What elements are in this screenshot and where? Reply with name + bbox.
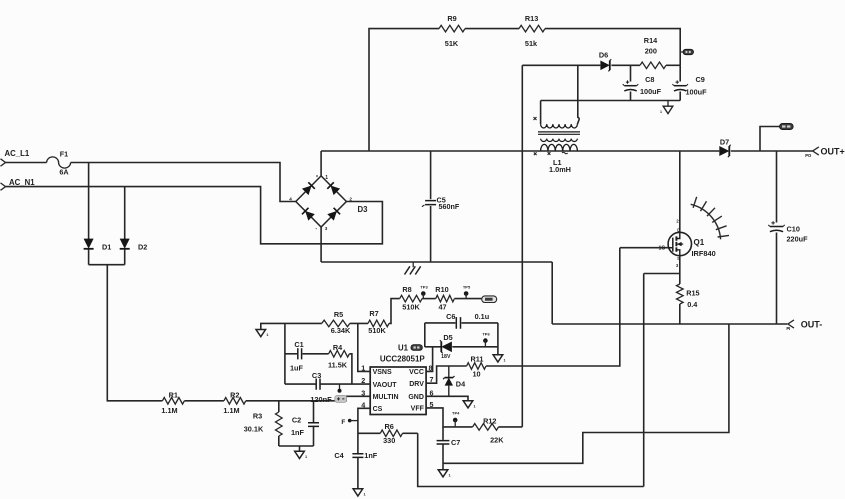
svg-text:R8: R8 — [402, 285, 411, 294]
capacitor C4 — [334, 451, 377, 460]
svg-text:200: 200 — [645, 47, 657, 56]
wire — [442, 427, 444, 440]
svg-text:1.1M: 1.1M — [223, 406, 239, 415]
net label — [482, 296, 497, 303]
wire — [358, 432, 380, 434]
wire — [630, 92, 632, 101]
svg-text:AC_L1: AC_L1 — [5, 149, 30, 158]
wire — [679, 256, 681, 284]
resistor R5 — [322, 310, 351, 335]
svg-text:220uF: 220uF — [787, 235, 809, 244]
resistor R14 — [640, 36, 666, 69]
resistor R9 — [439, 14, 465, 48]
svg-text:R6: R6 — [385, 422, 394, 431]
svg-text:VAOUT: VAOUT — [373, 382, 398, 389]
svg-text:R7: R7 — [369, 309, 378, 318]
svg-text:*: * — [316, 175, 318, 181]
wire — [313, 401, 315, 423]
wire — [278, 436, 280, 446]
wire — [124, 187, 126, 239]
test point TP5 — [463, 284, 471, 298]
svg-text:D7: D7 — [720, 137, 729, 146]
wire — [320, 383, 370, 385]
wire — [776, 151, 778, 223]
svg-text:R9: R9 — [447, 14, 456, 23]
wire — [497, 323, 499, 355]
capacitor C6 — [446, 312, 489, 329]
bridge rectifier D3 — [289, 175, 368, 232]
ground — [353, 489, 365, 497]
capacitor C9 — [672, 75, 707, 96]
svg-text:C7: C7 — [451, 438, 460, 447]
wire — [313, 427, 315, 446]
resistor R15 — [677, 284, 700, 309]
wire — [107, 265, 162, 401]
wire — [551, 262, 553, 324]
svg-text:120nF: 120nF — [310, 395, 332, 404]
resistor R2 — [223, 391, 245, 415]
resistor R8 — [400, 285, 422, 311]
resistor R3 — [244, 412, 282, 436]
svg-text:D6: D6 — [599, 50, 608, 59]
svg-text:C4: C4 — [334, 451, 344, 460]
svg-text:1.0mH: 1.0mH — [549, 165, 571, 174]
svg-text:R14: R14 — [644, 36, 658, 45]
svg-text:R10: R10 — [435, 285, 448, 294]
wire — [731, 150, 813, 152]
svg-text:3: 3 — [361, 388, 365, 397]
svg-text:U1: U1 — [398, 344, 409, 353]
wire — [541, 100, 681, 102]
wire — [403, 432, 418, 434]
svg-text:1.1M: 1.1M — [161, 406, 177, 415]
net flag F — [341, 419, 358, 426]
wire — [424, 323, 426, 347]
wire — [577, 65, 579, 124]
svg-text:R15: R15 — [686, 289, 699, 298]
svg-text:3: 3 — [676, 263, 679, 268]
heatsink of Q1 — [691, 197, 729, 240]
resistor R12 — [473, 417, 505, 445]
wire — [679, 92, 681, 101]
diode D4 — [443, 366, 466, 396]
capacitor C1 — [290, 340, 304, 372]
ground — [405, 262, 421, 275]
svg-text:C9: C9 — [696, 75, 705, 84]
wire — [545, 29, 680, 66]
wire — [442, 444, 444, 469]
wire — [302, 353, 328, 355]
ground — [493, 355, 505, 363]
capacitor C8 — [623, 75, 662, 96]
wire — [358, 323, 370, 371]
svg-text:PI: PI — [786, 326, 790, 331]
svg-text:C2: C2 — [292, 416, 301, 425]
resistor R1 — [161, 391, 184, 415]
svg-text:IRF840: IRF840 — [692, 249, 716, 258]
wire — [552, 323, 787, 325]
svg-text:51k: 51k — [525, 39, 538, 48]
svg-text:DRV: DRV — [409, 381, 424, 388]
wire — [320, 227, 322, 262]
op-amp U1 UCC28051P — [361, 344, 433, 415]
port OUT+ — [805, 146, 844, 157]
svg-text:2: 2 — [349, 196, 352, 201]
wire — [430, 151, 432, 199]
svg-text:TP6: TP6 — [482, 331, 490, 336]
node — [338, 384, 342, 393]
wire — [71, 163, 296, 202]
svg-text:R12: R12 — [483, 417, 496, 426]
svg-text:0.1u: 0.1u — [475, 312, 490, 321]
svg-text:D4: D4 — [456, 379, 466, 388]
svg-text:C6: C6 — [446, 312, 455, 321]
wire — [350, 322, 368, 324]
test point TP6 — [482, 331, 490, 347]
wire — [321, 261, 552, 263]
wire — [426, 347, 433, 372]
svg-text:Q1: Q1 — [694, 238, 705, 247]
svg-text:C3: C3 — [312, 371, 321, 380]
wire — [425, 346, 442, 348]
svg-text:1: 1 — [325, 175, 328, 181]
capacitor C10 — [768, 221, 808, 243]
port OUT- — [786, 319, 822, 330]
svg-text:R5: R5 — [334, 310, 343, 319]
wire — [465, 28, 519, 30]
resistor R11 — [467, 355, 486, 379]
capacitor C3 — [312, 371, 321, 390]
wire — [452, 346, 498, 348]
svg-text:D5: D5 — [443, 333, 452, 342]
svg-text:C10: C10 — [787, 224, 800, 233]
svg-text:TP4: TP4 — [452, 411, 460, 416]
wire — [426, 366, 467, 383]
wire — [679, 65, 681, 81]
ground — [295, 446, 307, 459]
wire — [443, 324, 729, 463]
svg-text:F: F — [341, 419, 345, 426]
wire — [6, 162, 47, 164]
svg-text:11.5K: 11.5K — [328, 361, 348, 370]
wire — [358, 408, 370, 453]
svg-text:6.34K: 6.34K — [331, 326, 351, 335]
svg-text:R13: R13 — [525, 14, 538, 23]
svg-text:-: - — [315, 226, 317, 232]
wire — [486, 248, 620, 366]
wire — [611, 64, 640, 66]
zener D5 — [440, 333, 453, 360]
wire — [124, 249, 126, 264]
svg-text:R3: R3 — [253, 412, 262, 421]
wire — [760, 127, 780, 152]
svg-text:47: 47 — [438, 302, 446, 311]
wire — [261, 323, 322, 329]
svg-text:UCC28051P: UCC28051P — [380, 355, 426, 364]
svg-text:18V: 18V — [441, 354, 451, 360]
svg-text:D: D — [677, 227, 680, 232]
wire — [285, 353, 297, 355]
svg-text:TP3: TP3 — [420, 284, 428, 289]
svg-text:OUT+: OUT+ — [821, 146, 845, 156]
wire — [88, 163, 90, 240]
fuse F1 — [47, 149, 71, 176]
net flag — [680, 49, 693, 54]
wire — [679, 151, 681, 232]
wire — [540, 101, 542, 125]
wire — [643, 274, 645, 487]
wire — [89, 264, 125, 266]
wire — [246, 396, 370, 401]
svg-text:4: 4 — [289, 196, 292, 201]
ground — [463, 401, 475, 409]
svg-text:C8: C8 — [645, 75, 654, 84]
svg-text:CS: CS — [373, 406, 383, 413]
svg-text:C1: C1 — [294, 340, 303, 349]
wire — [6, 187, 383, 244]
wire — [320, 151, 322, 176]
svg-text:510K: 510K — [402, 302, 420, 311]
svg-text:D2: D2 — [138, 242, 147, 251]
wire — [389, 299, 400, 324]
resistor R7 — [368, 309, 389, 335]
svg-text:1nF: 1nF — [291, 428, 305, 437]
svg-text:0.4: 0.4 — [687, 300, 698, 309]
transistor Q1 — [659, 218, 716, 268]
wire — [422, 298, 436, 300]
svg-text:1: 1 — [266, 333, 268, 337]
capacitor C5 — [422, 195, 460, 211]
wire — [418, 433, 644, 486]
test point TP3 — [420, 284, 428, 298]
wire — [679, 304, 681, 324]
wire — [279, 445, 314, 447]
diode D6 — [599, 50, 611, 71]
svg-text:R11: R11 — [471, 355, 484, 364]
svg-text:3: 3 — [325, 226, 328, 231]
diode D7 — [719, 137, 731, 157]
wire — [425, 322, 456, 324]
svg-text:2: 2 — [676, 218, 679, 223]
resistor R13 — [519, 14, 545, 48]
wire — [522, 64, 600, 66]
wire — [620, 247, 668, 249]
svg-text:F1: F1 — [60, 149, 68, 158]
svg-text:30.1K: 30.1K — [244, 425, 264, 434]
port AC_N1 — [1, 178, 36, 190]
diode D1 — [84, 239, 112, 252]
ground — [660, 101, 673, 115]
svg-text:1: 1 — [660, 110, 662, 114]
net flag — [780, 123, 794, 129]
svg-text:D3: D3 — [358, 205, 369, 214]
svg-text:560nF: 560nF — [439, 202, 460, 211]
svg-text:1uF: 1uF — [290, 363, 304, 372]
resistor R10 — [435, 285, 454, 311]
net flag — [411, 345, 423, 351]
svg-text:1: 1 — [474, 404, 476, 408]
svg-text:VSNS: VSNS — [373, 369, 392, 376]
ground — [256, 330, 268, 338]
svg-text:1nF: 1nF — [364, 451, 378, 460]
wire — [426, 396, 468, 400]
svg-text:R4: R4 — [333, 343, 343, 352]
wire — [644, 273, 680, 275]
wire — [454, 298, 481, 300]
capacitor C2 — [291, 416, 319, 437]
wire — [426, 408, 473, 427]
wire — [284, 323, 286, 384]
svg-text:R1: R1 — [169, 391, 178, 400]
wire — [278, 401, 280, 412]
svg-text:1: 1 — [363, 493, 365, 497]
svg-text:1: 1 — [305, 455, 307, 459]
capacitor C7 — [437, 438, 461, 447]
wire — [430, 206, 432, 262]
diode D2 — [120, 239, 148, 252]
svg-text:330: 330 — [383, 436, 395, 445]
svg-text:VCC: VCC — [409, 369, 424, 376]
svg-text:TP5: TP5 — [463, 284, 471, 289]
svg-text:1: 1 — [503, 359, 505, 363]
svg-text:1: 1 — [449, 473, 451, 477]
svg-text:100uF: 100uF — [640, 87, 662, 96]
resistor R4 — [328, 343, 349, 370]
svg-text:10: 10 — [472, 369, 480, 378]
wire — [349, 354, 352, 384]
wire — [499, 426, 523, 428]
port AC_L1 — [1, 149, 30, 166]
wire — [369, 29, 439, 151]
wire — [285, 383, 316, 385]
wire — [776, 233, 778, 325]
svg-text:6A: 6A — [59, 168, 68, 177]
inductor L1 — [534, 117, 581, 174]
wire — [462, 322, 498, 324]
svg-text:GND: GND — [408, 394, 424, 401]
svg-text:MULTIN: MULTIN — [373, 394, 399, 401]
wire — [321, 150, 719, 152]
wire — [184, 400, 224, 402]
wire — [88, 249, 90, 264]
ground — [438, 470, 450, 478]
svg-text:510K: 510K — [368, 326, 386, 335]
wire — [357, 458, 359, 489]
test point TP4 — [452, 411, 460, 427]
svg-text:OUT-: OUT- — [801, 319, 823, 329]
svg-text:22K: 22K — [490, 435, 504, 444]
net label 120nF tag — [310, 395, 346, 404]
svg-text:D1: D1 — [102, 242, 111, 251]
svg-text:VFF: VFF — [411, 406, 425, 413]
wire — [630, 65, 632, 81]
resistor R6 — [380, 422, 402, 445]
svg-text:R2: R2 — [230, 391, 239, 400]
svg-text:51K: 51K — [445, 39, 459, 48]
svg-text:100uF: 100uF — [686, 88, 708, 97]
wire — [521, 65, 523, 427]
svg-text:PO: PO — [805, 153, 812, 158]
wire — [666, 64, 680, 66]
svg-text:AC_N1: AC_N1 — [9, 178, 35, 187]
